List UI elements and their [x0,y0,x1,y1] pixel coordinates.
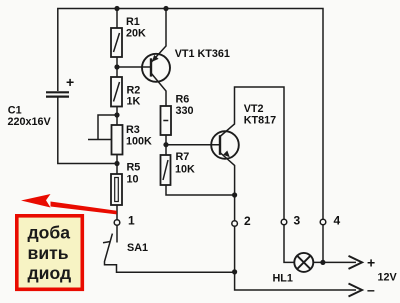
svg-text:доба: доба [28,222,71,242]
svg-text:20K: 20K [126,28,146,40]
svg-text:2: 2 [244,214,251,228]
svg-text:VT1 KT361: VT1 KT361 [175,48,230,60]
svg-text:10: 10 [127,174,139,186]
svg-text:100K: 100K [126,136,152,148]
svg-text:VT2: VT2 [244,103,264,115]
svg-text:R6: R6 [176,94,190,106]
svg-text:220x16V: 220x16V [8,116,52,128]
svg-text:R5: R5 [127,162,141,174]
svg-text:HL1: HL1 [273,273,293,285]
svg-text:10K: 10K [175,164,195,176]
svg-text:3: 3 [294,214,301,228]
svg-text:+: + [66,74,74,90]
svg-text:–: – [367,282,375,298]
svg-text:C1: C1 [8,105,22,117]
svg-text:4: 4 [334,214,341,228]
svg-text:KT817: KT817 [244,114,276,126]
svg-text:R7: R7 [176,151,190,163]
svg-text:вить: вить [28,243,69,263]
svg-text:330: 330 [176,105,194,117]
svg-text:+: + [367,255,375,271]
svg-text:диод: диод [28,263,72,283]
svg-text:R3: R3 [126,124,140,136]
svg-text:1K: 1K [127,96,141,108]
svg-text:12V: 12V [378,272,398,284]
svg-text:SA1: SA1 [127,242,148,254]
svg-text:1: 1 [128,214,135,228]
svg-text:R1: R1 [126,16,140,28]
